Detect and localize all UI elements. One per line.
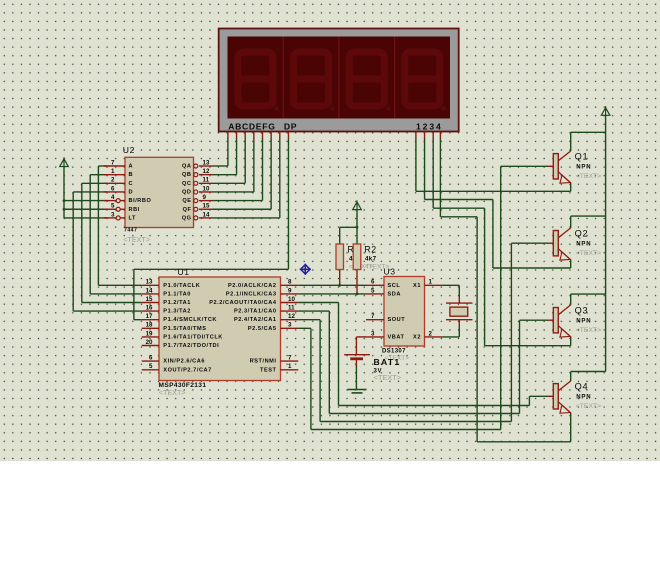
svg-text:P1.1/TA0: P1.1/TA0: [163, 291, 191, 297]
svg-text:X1: X1: [413, 283, 421, 289]
svg-text:<TEXT>: <TEXT>: [123, 235, 150, 244]
svg-text:R2: R2: [364, 245, 376, 255]
svg-text:DS1307: DS1307: [382, 349, 406, 355]
svg-text:15: 15: [203, 203, 210, 210]
svg-text:5: 5: [371, 287, 375, 294]
svg-text:5: 5: [111, 203, 115, 210]
svg-text:QF: QF: [183, 207, 192, 213]
svg-text:4k7: 4k7: [365, 256, 377, 263]
svg-text:P1.6/TA1/TDI/TCLK: P1.6/TA1/TDI/TCLK: [163, 334, 223, 340]
svg-text:1: 1: [429, 279, 433, 286]
svg-text:<TEXT>: <TEXT>: [374, 373, 402, 382]
svg-text:P1.4/SMCLK/TCK: P1.4/SMCLK/TCK: [163, 317, 217, 323]
svg-text:5: 5: [149, 363, 153, 370]
svg-text:13: 13: [146, 279, 153, 286]
svg-text:10: 10: [288, 296, 295, 303]
svg-text:Q2: Q2: [575, 229, 589, 239]
svg-text:1: 1: [288, 363, 292, 370]
svg-text:<TEXT>: <TEXT>: [576, 327, 601, 334]
svg-text:8: 8: [288, 279, 292, 286]
svg-text:P2.5/CA5: P2.5/CA5: [248, 326, 277, 332]
svg-text:1: 1: [111, 168, 115, 175]
svg-text:10: 10: [203, 185, 210, 192]
svg-text:Q1: Q1: [575, 152, 589, 162]
svg-text:B: B: [129, 172, 134, 178]
svg-text:<TEXT>: <TEXT>: [576, 403, 601, 410]
svg-text:16: 16: [146, 305, 153, 312]
svg-text:11: 11: [288, 305, 295, 312]
svg-text:BI/RBO: BI/RBO: [129, 198, 152, 204]
svg-text:12: 12: [203, 168, 210, 175]
svg-text:<TEXT>: <TEXT>: [159, 388, 186, 397]
svg-text:7447: 7447: [124, 228, 137, 234]
svg-text:14: 14: [203, 211, 210, 218]
svg-text:3: 3: [111, 211, 115, 218]
svg-text:3: 3: [371, 330, 375, 337]
svg-text:U1: U1: [178, 267, 190, 277]
svg-text:NPN: NPN: [576, 242, 591, 248]
svg-text:P2.1/INCLK/CA3: P2.1/INCLK/CA3: [226, 291, 277, 297]
svg-text:9: 9: [288, 287, 292, 294]
svg-text:QE: QE: [182, 198, 191, 204]
svg-text:<TEXT>: <TEXT>: [576, 173, 601, 180]
svg-text:C: C: [129, 181, 134, 187]
svg-text:QC: QC: [182, 181, 192, 187]
svg-text:7: 7: [371, 313, 375, 320]
svg-text:QD: QD: [182, 189, 192, 195]
svg-text:2: 2: [111, 177, 115, 184]
svg-text:P1.5/TA0/TMS: P1.5/TA0/TMS: [163, 326, 206, 332]
svg-text:SCL: SCL: [388, 283, 401, 289]
svg-text:P2.3/TA1/CA0: P2.3/TA1/CA0: [234, 309, 277, 315]
svg-text:A: A: [129, 164, 134, 170]
svg-text:3: 3: [288, 322, 292, 329]
svg-text:13: 13: [203, 159, 210, 166]
svg-text:Q4: Q4: [575, 382, 589, 392]
svg-text:NPN: NPN: [576, 395, 591, 401]
svg-text:6: 6: [371, 279, 375, 286]
svg-text:1234: 1234: [416, 122, 443, 132]
svg-text:NPN: NPN: [576, 165, 591, 171]
svg-text:VBAT: VBAT: [388, 334, 405, 340]
svg-text:QB: QB: [182, 172, 192, 178]
svg-text:SOUT: SOUT: [388, 317, 406, 323]
svg-text:ABCDEFG: ABCDEFG: [228, 122, 275, 132]
svg-text:P2.2/CAOUT/TA0/CA4: P2.2/CAOUT/TA0/CA4: [209, 300, 277, 306]
svg-text:P2.0/ACLK/CA2: P2.0/ACLK/CA2: [228, 283, 277, 289]
svg-text:XOUT/P2.7/CA7: XOUT/P2.7/CA7: [163, 367, 212, 373]
svg-text:14: 14: [146, 287, 153, 294]
svg-text:6: 6: [149, 355, 153, 362]
svg-text:4: 4: [111, 194, 115, 201]
svg-text:20: 20: [146, 339, 153, 346]
svg-text:6: 6: [111, 185, 115, 192]
svg-text:P2.4/TA2/CA1: P2.4/TA2/CA1: [234, 317, 277, 323]
svg-text:XIN/P2.6/CA6: XIN/P2.6/CA6: [163, 359, 205, 365]
svg-text:P1.7/TA2/TDO/TDI: P1.7/TA2/TDO/TDI: [163, 343, 219, 349]
svg-text:TEST: TEST: [260, 367, 277, 373]
svg-text:X2: X2: [413, 334, 421, 340]
svg-text:Q3: Q3: [575, 306, 589, 316]
svg-text:SDA: SDA: [388, 291, 401, 297]
svg-text:11: 11: [203, 177, 210, 184]
svg-text:QG: QG: [182, 215, 192, 221]
svg-text:P1.0/TACLK: P1.0/TACLK: [163, 283, 200, 289]
svg-text:2: 2: [429, 330, 433, 337]
svg-text:17: 17: [146, 313, 153, 320]
svg-text:LT: LT: [129, 215, 137, 221]
svg-text:9: 9: [203, 194, 207, 201]
svg-text:RBI: RBI: [129, 207, 140, 213]
svg-text:DP: DP: [284, 122, 297, 132]
svg-text:P1.3/TA2: P1.3/TA2: [163, 309, 191, 315]
svg-text:D: D: [129, 189, 134, 195]
svg-text:<TEXT>: <TEXT>: [576, 250, 601, 257]
svg-text:RST/NMI: RST/NMI: [250, 359, 277, 365]
svg-text:QA: QA: [182, 164, 192, 170]
svg-text:<TEXT>: <TEXT>: [365, 264, 390, 271]
svg-text:7: 7: [288, 355, 292, 362]
svg-text:7: 7: [111, 159, 115, 166]
svg-text:P1.2/TA1: P1.2/TA1: [163, 300, 191, 306]
svg-text:19: 19: [146, 330, 153, 337]
svg-text:12: 12: [288, 313, 295, 320]
svg-text:15: 15: [146, 296, 153, 303]
svg-text:18: 18: [146, 322, 153, 329]
svg-text:NPN: NPN: [576, 319, 591, 325]
svg-text:BAT1: BAT1: [374, 357, 401, 367]
svg-text:U2: U2: [123, 145, 135, 155]
